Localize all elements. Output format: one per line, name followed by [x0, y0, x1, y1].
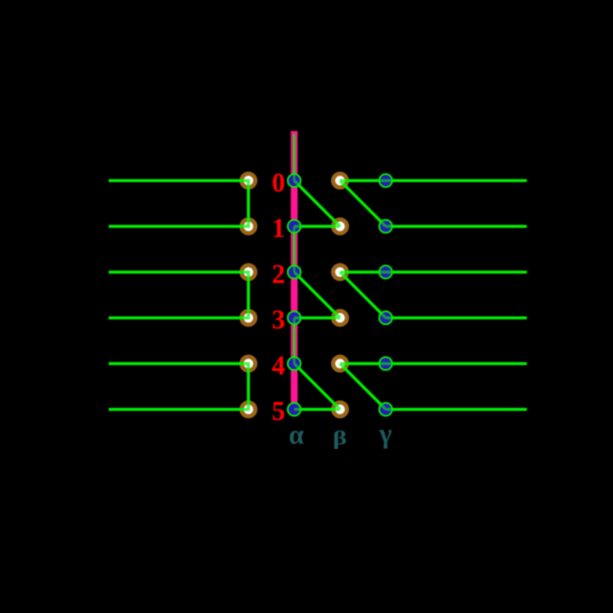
wire G3 to right edge: [386, 316, 527, 319]
node G3 core overlay: [380, 312, 391, 323]
svg-text:0: 0: [272, 167, 286, 197]
wire left pair 2-3: [109, 272, 249, 318]
node G5 core overlay: [380, 404, 391, 415]
node G2 (gamma column): [379, 266, 392, 279]
wire B4 to right edge through G4: [340, 362, 527, 365]
terminal B4 core overlay: [335, 359, 345, 369]
wire A4 to B5 diagonal: [294, 364, 340, 410]
node A5 (alpha column): [288, 403, 301, 416]
node G4 (gamma column): [379, 357, 392, 370]
terminal B0 core overlay: [335, 176, 345, 186]
terminal L0 core overlay: [244, 176, 254, 186]
wire B0 to right edge through G0: [340, 179, 527, 182]
wire left pair 0-1: [109, 181, 249, 227]
wire B2 to right edge through G2: [340, 271, 527, 274]
node A2 (alpha column): [288, 266, 301, 279]
terminal B2 core overlay: [335, 267, 345, 277]
terminal L4: [240, 355, 256, 371]
wire left pair 4-5: [109, 364, 249, 410]
node G1 core overlay: [380, 221, 391, 232]
wire bus stripe 1: [293, 226, 295, 272]
terminal B3 core overlay: [335, 313, 345, 323]
bus bar alpha (magenta): [291, 131, 298, 409]
terminal L1: [240, 218, 256, 234]
node A1 core overlay: [289, 221, 300, 232]
wire A1 to B1: [294, 225, 340, 228]
wire B2 to G3 diagonal: [340, 272, 386, 318]
svg-text:2: 2: [272, 259, 286, 289]
terminal L5: [240, 401, 256, 417]
terminal B5 core overlay: [335, 405, 345, 415]
terminal B3 (beta column): [332, 310, 348, 326]
wire A0 to B1 diagonal: [294, 181, 340, 227]
svg-text:α: α: [289, 420, 304, 450]
node G1 (gamma column): [379, 220, 392, 233]
node G0 (gamma column): [379, 174, 392, 187]
node A4 core overlay: [289, 358, 300, 369]
svg-text:γ: γ: [378, 419, 392, 449]
node G3 (gamma column): [379, 311, 392, 324]
terminal B2 (beta column): [332, 264, 348, 280]
wire bus stripe 0: [293, 134, 295, 181]
terminal L2: [240, 264, 256, 280]
wire G5 to right edge: [386, 408, 527, 411]
node A1 (alpha column): [288, 220, 301, 233]
wire A3 to B3: [294, 316, 340, 319]
terminal B4 (beta column): [332, 355, 348, 371]
node A3 core overlay: [289, 312, 300, 323]
wire A2 to B3 diagonal: [294, 272, 340, 318]
node G2 core overlay: [380, 267, 391, 278]
node A3 (alpha column): [288, 311, 301, 324]
terminal B1 (beta column): [332, 218, 348, 234]
wire B4 to G5 diagonal: [340, 364, 386, 410]
terminal L0: [240, 172, 256, 188]
node G0 core overlay: [380, 175, 391, 186]
terminal L1 core overlay: [244, 222, 254, 232]
node G4 core overlay: [380, 358, 391, 369]
wire B0 to G1 diagonal: [340, 181, 386, 227]
svg-text:5: 5: [272, 396, 286, 426]
terminal L5 core overlay: [244, 405, 254, 415]
node G5 (gamma column): [379, 403, 392, 416]
terminal L2 core overlay: [244, 267, 254, 277]
svg-text:β: β: [333, 427, 347, 449]
svg-text:1: 1: [272, 213, 286, 243]
terminal B1 core overlay: [335, 222, 345, 232]
wire A5 to B5: [294, 408, 340, 411]
wire G1 to right edge: [386, 225, 527, 228]
terminal L3 core overlay: [244, 313, 254, 323]
node A5 core overlay: [289, 404, 300, 415]
terminal B5 (beta column): [332, 401, 348, 417]
node A4 (alpha column): [288, 357, 301, 370]
node A0 (alpha column): [288, 174, 301, 187]
svg-text:3: 3: [272, 305, 286, 335]
terminal L3: [240, 310, 256, 326]
terminal B0 (beta column): [332, 172, 348, 188]
wire bus stripe 2: [293, 318, 295, 364]
node A2 core overlay: [289, 267, 300, 278]
svg-text:4: 4: [272, 350, 286, 380]
terminal L4 core overlay: [244, 359, 254, 369]
node A0 core overlay: [289, 175, 300, 186]
